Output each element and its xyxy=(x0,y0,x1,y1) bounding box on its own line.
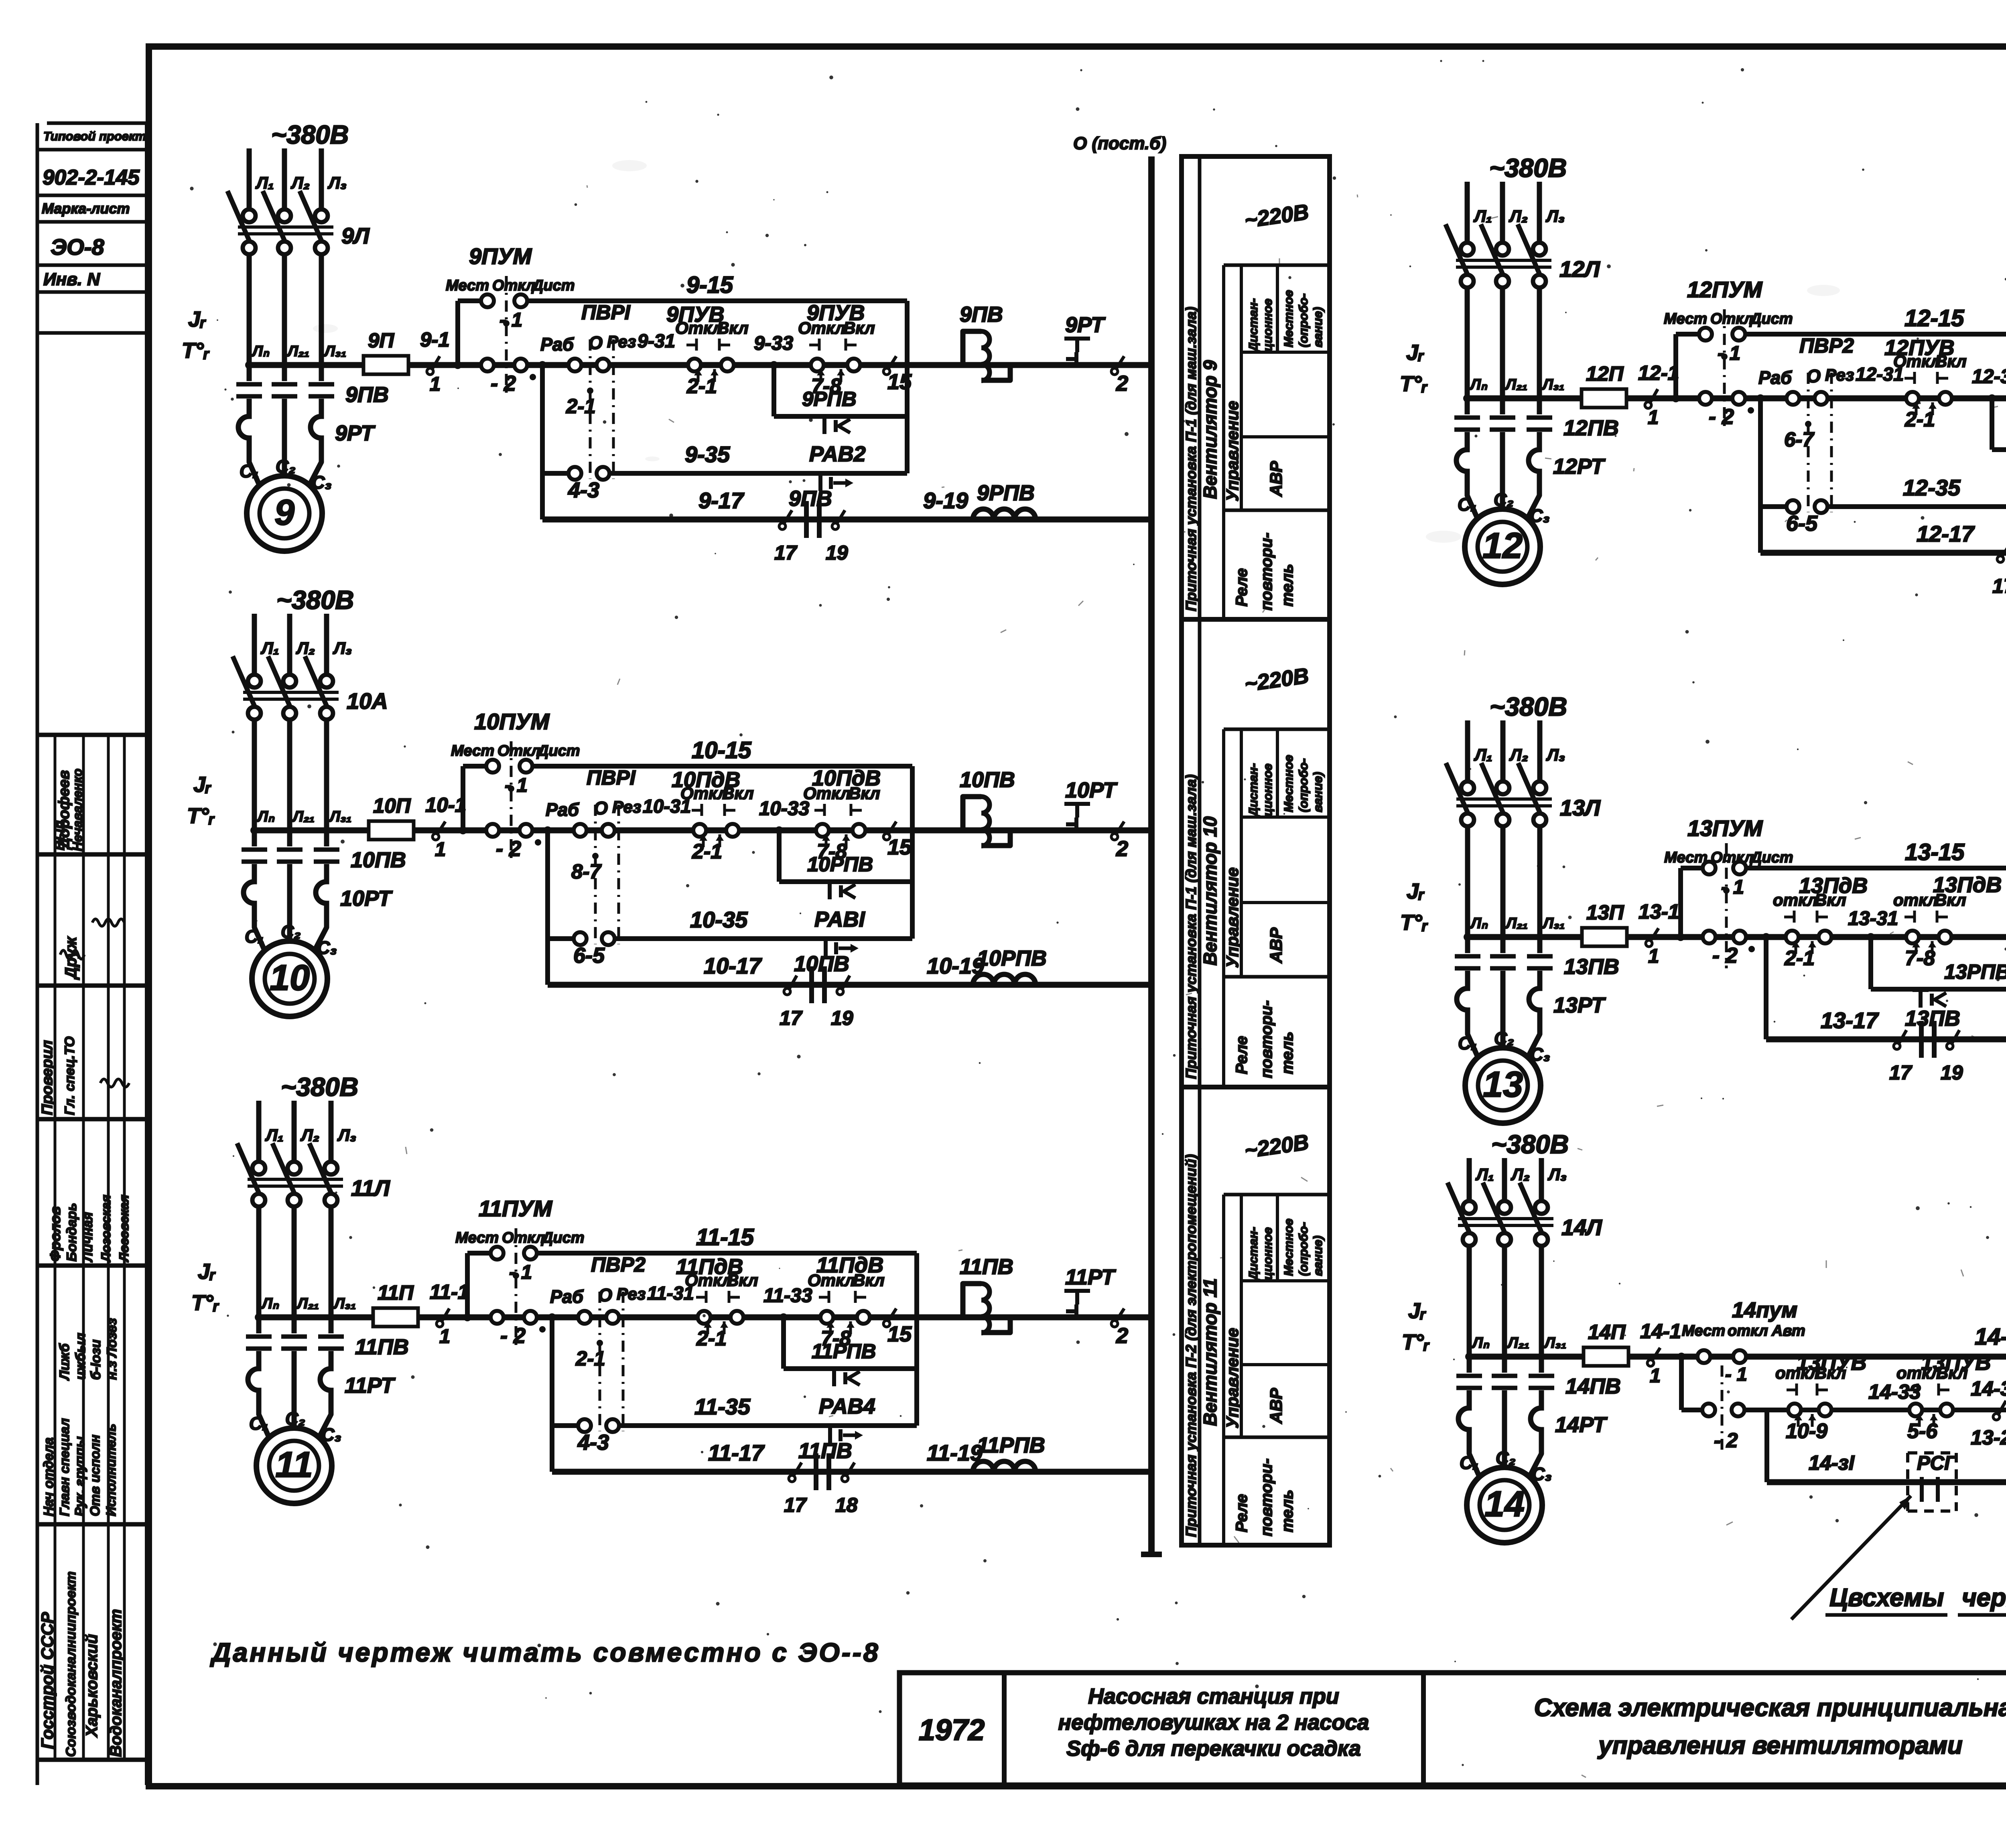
svg-text:Вентилятор 10: Вентилятор 10 xyxy=(1200,816,1220,966)
svg-text:Sф-6 для перекачки осадка: Sф-6 для перекачки осадка xyxy=(1066,1736,1361,1761)
svg-text:1972: 1972 xyxy=(919,1713,985,1747)
svg-text:повтори-: повтори- xyxy=(1258,1000,1275,1078)
svg-text:Л₃₁: Л₃₁ xyxy=(329,808,351,825)
svg-text:тель: тель xyxy=(1279,564,1296,607)
svg-text:Мест: Мест xyxy=(455,1229,499,1246)
svg-text:T°ᵣ: T°ᵣ xyxy=(191,1291,219,1315)
svg-text:12-15: 12-15 xyxy=(1904,305,1964,331)
svg-text:Лₙ: Лₙ xyxy=(1469,376,1488,393)
svg-text:Л₂₁: Л₂₁ xyxy=(296,1295,319,1312)
svg-text:10-33: 10-33 xyxy=(759,798,809,820)
svg-text:11РТ: 11РТ xyxy=(345,1373,396,1398)
svg-text:13-17: 13-17 xyxy=(1821,1008,1879,1033)
svg-text:Мест: Мест xyxy=(1682,1323,1725,1339)
svg-text:(опробо-: (опробо- xyxy=(1296,758,1310,812)
svg-text:- 2: - 2 xyxy=(1712,943,1738,968)
svg-text:Отв исполн: Отв исполн xyxy=(87,1435,102,1516)
svg-text:12-35: 12-35 xyxy=(1903,475,1961,500)
svg-text:1: 1 xyxy=(1648,407,1659,428)
svg-text:ПВРІ: ПВРІ xyxy=(587,766,636,789)
svg-text:Л₃₁: Л₃₁ xyxy=(323,343,346,360)
svg-text:13ПУВ: 13ПУВ xyxy=(1797,1351,1866,1375)
svg-text:Мест: Мест xyxy=(1664,849,1708,866)
svg-text:Раб: Раб xyxy=(540,334,574,355)
svg-text:Л₃₁: Л₃₁ xyxy=(1541,376,1564,393)
svg-text:~380В: ~380В xyxy=(276,585,354,615)
svg-text:Приточная установка П-1 (для м: Приточная установка П-1 (для маш.зала) xyxy=(1183,307,1199,611)
svg-text:Л₃: Л₃ xyxy=(1545,207,1565,225)
svg-text:6-5: 6-5 xyxy=(573,943,605,968)
svg-text:Дист: Дист xyxy=(1749,310,1793,327)
svg-text:13ПВ: 13ПВ xyxy=(1905,1006,1960,1030)
svg-text:ционное: ционное xyxy=(1261,1227,1275,1280)
svg-text:2-1: 2-1 xyxy=(696,1327,727,1350)
svg-text:Дистан-: Дистан- xyxy=(1246,298,1260,353)
svg-text:вание): вание) xyxy=(1311,772,1325,812)
svg-text:откл: откл xyxy=(1893,891,1938,909)
svg-text:Реле: Реле xyxy=(1233,568,1251,607)
svg-text:11ПВ: 11ПВ xyxy=(355,1335,409,1359)
svg-text:9-15: 9-15 xyxy=(686,272,733,298)
svg-text:Исполнитель: Исполнитель xyxy=(104,1424,118,1516)
svg-text:Л₁: Л₁ xyxy=(255,173,274,192)
svg-text:13Л: 13Л xyxy=(1560,795,1601,820)
svg-text:19: 19 xyxy=(826,542,848,564)
svg-text:Управление: Управление xyxy=(1223,401,1242,501)
svg-text:Дист: Дист xyxy=(531,277,575,294)
svg-text:12-33: 12-33 xyxy=(1972,366,2006,387)
svg-text:11: 11 xyxy=(275,1445,313,1485)
svg-text:2: 2 xyxy=(1116,371,1128,396)
svg-text:C₁: C₁ xyxy=(240,461,259,481)
svg-text:C₁: C₁ xyxy=(245,926,264,947)
svg-text:РСГ: РСГ xyxy=(1917,1452,1957,1474)
svg-text:Откл: Откл xyxy=(1711,849,1754,866)
svg-text:- 2: - 2 xyxy=(496,837,521,861)
svg-text:10РТ: 10РТ xyxy=(340,886,393,911)
svg-text:C₁: C₁ xyxy=(1458,1033,1477,1053)
svg-text:ижбыл: ижбыл xyxy=(73,1333,88,1380)
svg-text:(опробо-: (опробо- xyxy=(1296,293,1310,347)
svg-text:Откл: Откл xyxy=(497,742,540,759)
svg-text:Л₃: Л₃ xyxy=(333,639,352,657)
svg-text:ционное: ционное xyxy=(1261,763,1275,816)
svg-text:9ПУВ: 9ПУВ xyxy=(666,302,724,327)
svg-text:19: 19 xyxy=(1941,1061,1963,1084)
svg-text:Рез: Рез xyxy=(612,797,641,816)
svg-text:11ПУМ: 11ПУМ xyxy=(479,1196,552,1221)
svg-text:Jᵣ: Jᵣ xyxy=(198,1260,216,1284)
svg-text:Дистан-: Дистан- xyxy=(1246,763,1260,818)
svg-text:11-35: 11-35 xyxy=(694,1394,751,1419)
svg-text:Водоканалпроект: Водоканалпроект xyxy=(107,1609,125,1757)
svg-text:11-17: 11-17 xyxy=(708,1440,765,1465)
svg-text:н.з Лозез: н.з Лозез xyxy=(104,1318,120,1380)
svg-text:- 1: - 1 xyxy=(509,1262,532,1283)
svg-text:14пум: 14пум xyxy=(1732,1298,1797,1322)
svg-text:Л₁: Л₁ xyxy=(1473,207,1492,225)
svg-text:2-1: 2-1 xyxy=(1784,947,1815,970)
svg-text:Нач отдела: Нач отдела xyxy=(41,1438,56,1516)
svg-text:9ПВ: 9ПВ xyxy=(789,487,832,511)
svg-text:Дист: Дист xyxy=(541,1229,585,1246)
svg-text:10-35: 10-35 xyxy=(690,907,748,932)
svg-text:Инв. N: Инв. N xyxy=(43,270,100,289)
svg-text:Лₙ: Лₙ xyxy=(1471,1335,1490,1351)
svg-text:Друж: Друж xyxy=(62,936,80,980)
svg-text:~380В: ~380В xyxy=(281,1072,358,1101)
svg-text:Л₂₁: Л₂₁ xyxy=(1507,1335,1529,1351)
svg-text:902-2-145: 902-2-145 xyxy=(43,166,140,189)
svg-text:9-19: 9-19 xyxy=(923,488,968,513)
svg-text:Дистан-: Дистан- xyxy=(1246,1227,1260,1281)
svg-text:Jᵣ: Jᵣ xyxy=(1406,341,1424,365)
svg-text:(опробо-: (опробо- xyxy=(1296,1222,1310,1276)
svg-text:11ПдВ: 11ПдВ xyxy=(676,1255,743,1279)
svg-text:12ПУМ: 12ПУМ xyxy=(1687,277,1762,302)
svg-text:- 1: - 1 xyxy=(1718,343,1740,364)
svg-text:11ПВ: 11ПВ xyxy=(798,1439,852,1463)
svg-text:17: 17 xyxy=(774,542,798,564)
svg-text:Л₂: Л₂ xyxy=(1511,1165,1530,1184)
svg-text:повтори-: повтори- xyxy=(1258,533,1275,611)
svg-text:1: 1 xyxy=(435,839,446,860)
svg-text:тель: тель xyxy=(1279,1032,1296,1074)
svg-text:11РПВ: 11РПВ xyxy=(812,1340,876,1363)
svg-text:11РТ: 11РТ xyxy=(1065,1265,1116,1289)
svg-text:Реле: Реле xyxy=(1233,1494,1251,1533)
svg-text:14-33: 14-33 xyxy=(1868,1380,1921,1403)
svg-text:Личная: Личная xyxy=(80,1212,95,1263)
svg-text:- 2: - 2 xyxy=(1714,1429,1738,1452)
svg-text:11-15: 11-15 xyxy=(696,1224,754,1250)
svg-text:Приточная установка П-1 (для м: Приточная установка П-1 (для маш.зала) xyxy=(1183,775,1199,1079)
svg-text:13ПУВ: 13ПУВ xyxy=(1921,1351,1991,1375)
svg-text:Нечаваленко: Нечаваленко xyxy=(70,769,85,851)
svg-text:Л₃: Л₃ xyxy=(1547,1165,1567,1184)
svg-text:- 2: - 2 xyxy=(500,1324,526,1348)
svg-text:откл: откл xyxy=(1728,1323,1768,1339)
svg-text:Л₁: Л₁ xyxy=(1474,745,1492,764)
svg-text:10-1: 10-1 xyxy=(425,793,466,816)
svg-text:14РТ: 14РТ xyxy=(1555,1413,1608,1437)
svg-text:9-17: 9-17 xyxy=(698,488,745,513)
svg-text:АВР: АВР xyxy=(1267,460,1285,497)
svg-text:Гл. спец.ТО: Гл. спец.ТО xyxy=(62,1037,77,1115)
svg-text:10П: 10П xyxy=(373,794,411,817)
svg-text:Лₙ: Лₙ xyxy=(251,343,270,360)
svg-text:Авт: Авт xyxy=(1771,1323,1805,1339)
svg-text:2-1: 2-1 xyxy=(575,1347,605,1370)
svg-text:Харьковский: Харьковский xyxy=(83,1634,101,1738)
svg-text:Л₁: Л₁ xyxy=(265,1126,284,1144)
svg-text:Союзводоканалниипроект: Союзводоканалниипроект xyxy=(63,1571,79,1757)
svg-text:Схема электрическая принципиал: Схема электрическая принципиальная xyxy=(1534,1694,2006,1722)
svg-text:9РТ: 9РТ xyxy=(335,421,376,445)
svg-text:Л₂: Л₂ xyxy=(296,639,315,657)
svg-text:11ПВ: 11ПВ xyxy=(960,1255,1013,1279)
svg-text:Л₃: Л₃ xyxy=(337,1126,356,1144)
svg-text:4-3: 4-3 xyxy=(577,1430,609,1454)
svg-text:Откл: Откл xyxy=(502,1229,545,1246)
svg-text:12-17: 12-17 xyxy=(1917,521,1975,546)
svg-text:17: 17 xyxy=(780,1007,803,1029)
svg-text:Jᵣ: Jᵣ xyxy=(193,773,211,797)
svg-text:19: 19 xyxy=(831,1007,853,1029)
svg-text:1: 1 xyxy=(439,1326,450,1347)
svg-text:14-35: 14-35 xyxy=(1971,1377,2006,1400)
svg-text:9Л: 9Л xyxy=(341,223,370,248)
svg-text:1: 1 xyxy=(1648,945,1659,967)
svg-text:Типовой проект: Типовой проект xyxy=(43,129,146,143)
svg-text:9: 9 xyxy=(274,493,294,533)
svg-text:Л₁: Л₁ xyxy=(260,639,279,657)
svg-text:13-25 13-2З: 13-25 13-2З xyxy=(1971,1426,2006,1449)
svg-text:~380В: ~380В xyxy=(1489,153,1567,183)
svg-text:13ПдВ: 13ПдВ xyxy=(1933,873,2002,897)
svg-text:12РТ: 12РТ xyxy=(1553,454,1606,479)
svg-text:10ПВ: 10ПВ xyxy=(351,848,406,872)
svg-text:Л₂: Л₂ xyxy=(1509,207,1528,225)
svg-text:11-19: 11-19 xyxy=(927,1440,983,1465)
svg-text:Л₃₁: Л₃₁ xyxy=(1543,1335,1566,1351)
svg-text:Лижб: Лижб xyxy=(57,1343,72,1381)
svg-text:11-1: 11-1 xyxy=(430,1280,469,1303)
svg-text:Вып: Вып xyxy=(52,820,67,850)
svg-text:9П: 9П xyxy=(368,329,394,352)
svg-text:10-9: 10-9 xyxy=(1786,1420,1827,1443)
svg-text:Раб: Раб xyxy=(1758,367,1792,388)
svg-text:12ПВ: 12ПВ xyxy=(1563,416,1619,440)
svg-text:17: 17 xyxy=(1992,575,2006,597)
svg-text:12: 12 xyxy=(1482,526,1523,566)
svg-text:Цвсхемы: Цвсхемы xyxy=(1829,1584,1944,1612)
svg-text:О (пост.б): О (пост.б) xyxy=(1073,134,1166,153)
svg-text:Марка-лист: Марка-лист xyxy=(42,200,130,217)
svg-text:10ПдВ: 10ПдВ xyxy=(812,766,881,790)
svg-text:Реле: Реле xyxy=(1233,1036,1251,1075)
svg-text:- 1: - 1 xyxy=(499,309,522,331)
svg-text:2-1: 2-1 xyxy=(692,840,722,863)
svg-text:14П: 14П xyxy=(1588,1321,1626,1343)
svg-text:Лозовская: Лозовская xyxy=(99,1195,113,1262)
svg-text:12ПУВ: 12ПУВ xyxy=(1884,336,1954,360)
svg-text:Л₃: Л₃ xyxy=(327,173,347,192)
svg-text:вание): вание) xyxy=(1311,307,1325,347)
svg-text:Данный чертеж читать совмес: Данный чертеж читать совместно с ЭО--8 xyxy=(210,1637,880,1667)
svg-text:АВР: АВР xyxy=(1267,927,1285,964)
svg-text:Jᵣ: Jᵣ xyxy=(188,307,206,331)
svg-text:17: 17 xyxy=(1889,1061,1913,1084)
svg-text:Jᵣ: Jᵣ xyxy=(1407,879,1425,903)
svg-text:Местное: Местное xyxy=(1281,290,1295,347)
svg-text:1: 1 xyxy=(1650,1365,1661,1387)
svg-text:7-8: 7-8 xyxy=(1905,947,1935,970)
svg-text:12Л: 12Л xyxy=(1559,256,1600,282)
svg-text:Л₂: Л₂ xyxy=(300,1126,319,1144)
svg-text:6-5: 6-5 xyxy=(1786,511,1818,536)
svg-text:5-6: 5-6 xyxy=(1907,1420,1938,1443)
svg-text:13: 13 xyxy=(1483,1065,1523,1105)
svg-text:РАВ4: РАВ4 xyxy=(819,1394,875,1418)
svg-text:Л₂₁: Л₂₁ xyxy=(292,808,315,825)
svg-text:6-7: 6-7 xyxy=(1784,428,1815,451)
svg-text:9РПВ: 9РПВ xyxy=(802,387,857,410)
svg-text:нефтеловушках на 2 насоса: нефтеловушках на 2 насоса xyxy=(1058,1710,1369,1734)
svg-text:ПВР2: ПВР2 xyxy=(591,1253,646,1276)
svg-text:Приточная установка П-2 (для э: Приточная установка П-2 (для электропоме… xyxy=(1183,1154,1199,1537)
svg-text:10ПВ: 10ПВ xyxy=(794,952,849,976)
svg-text:14: 14 xyxy=(1484,1484,1525,1524)
svg-text:10РПВ: 10РПВ xyxy=(807,853,873,876)
svg-text:12П: 12П xyxy=(1586,362,1624,385)
svg-text:10РПВ: 10РПВ xyxy=(977,946,1047,970)
svg-text:17: 17 xyxy=(784,1494,807,1516)
svg-text:~380В: ~380В xyxy=(1490,692,1567,721)
svg-text:Вентилятор 9: Вентилятор 9 xyxy=(1200,360,1220,499)
svg-text:10-15: 10-15 xyxy=(692,737,751,763)
svg-text:~380В: ~380В xyxy=(1491,1130,1569,1159)
svg-text:10ПУМ: 10ПУМ xyxy=(474,709,550,734)
svg-text:б-Іози: б-Іози xyxy=(88,1339,104,1380)
svg-text:черт. 37-І-2: черт. 37-І-2 xyxy=(1962,1584,2006,1612)
svg-text:Местное: Местное xyxy=(1281,755,1295,812)
svg-text:10РТ: 10РТ xyxy=(1065,778,1118,802)
svg-text:T°ᵣ: T°ᵣ xyxy=(1400,911,1428,935)
svg-text:Л₃₁: Л₃₁ xyxy=(1542,915,1565,932)
svg-text:9РТ: 9РТ xyxy=(1065,313,1106,337)
svg-text:13ПВ: 13ПВ xyxy=(1564,955,1619,979)
svg-text:10-17: 10-17 xyxy=(704,953,762,978)
svg-text:Госстрой СССР: Госстрой СССР xyxy=(38,1612,57,1749)
svg-text:T°ᵣ: T°ᵣ xyxy=(1402,1330,1430,1354)
svg-text:11-33: 11-33 xyxy=(763,1285,812,1306)
svg-text:2: 2 xyxy=(1116,1324,1128,1348)
svg-text:Рез: Рез xyxy=(1825,365,1854,384)
svg-text:18: 18 xyxy=(835,1494,858,1516)
svg-text:Раб: Раб xyxy=(546,799,579,820)
svg-text:15: 15 xyxy=(887,835,912,859)
svg-text:2-1: 2-1 xyxy=(686,375,717,398)
svg-text:тель: тель xyxy=(1279,1490,1296,1532)
svg-text:8-7: 8-7 xyxy=(571,860,602,883)
svg-text:9РПВ: 9РПВ xyxy=(977,481,1035,505)
svg-text:11РПВ: 11РПВ xyxy=(977,1433,1045,1457)
svg-text:ПВР2: ПВР2 xyxy=(1799,334,1854,357)
svg-text:13П: 13П xyxy=(1586,901,1624,924)
svg-text:1: 1 xyxy=(430,373,441,395)
svg-text:15: 15 xyxy=(887,1322,912,1346)
svg-text:- 2: - 2 xyxy=(1709,405,1734,429)
svg-text:2-1: 2-1 xyxy=(1904,408,1935,431)
svg-text:Раб: Раб xyxy=(550,1286,584,1307)
svg-text:13-31: 13-31 xyxy=(1848,908,1898,929)
svg-text:9ПУМ: 9ПУМ xyxy=(469,243,532,269)
svg-text:вание): вание) xyxy=(1311,1235,1325,1276)
svg-text:10А: 10А xyxy=(347,688,388,714)
svg-text:- 2: - 2 xyxy=(491,371,516,396)
svg-text:13-1: 13-1 xyxy=(1639,900,1679,923)
svg-text:Откл: Откл xyxy=(492,277,535,294)
svg-text:9ПВ: 9ПВ xyxy=(960,302,1003,327)
svg-text:Л₁: Л₁ xyxy=(1475,1165,1494,1184)
svg-text:Фролов: Фролов xyxy=(47,1206,63,1262)
svg-text:11ПдВ: 11ПдВ xyxy=(816,1253,883,1277)
svg-text:C₁: C₁ xyxy=(1458,494,1477,515)
svg-text:Мест: Мест xyxy=(451,742,494,759)
svg-text:Рук. группы: Рук. группы xyxy=(72,1436,87,1516)
svg-text:Бондарь: Бондарь xyxy=(64,1203,79,1262)
svg-text:РАВ2: РАВ2 xyxy=(809,442,866,466)
svg-text:ЭО-8: ЭО-8 xyxy=(51,234,104,260)
svg-text:13ПдВ: 13ПдВ xyxy=(1799,874,1868,898)
svg-text:14-1: 14-1 xyxy=(1640,1320,1681,1343)
svg-text:Дист: Дист xyxy=(536,742,580,759)
svg-text:14-13: 14-13 xyxy=(1975,1324,2006,1350)
svg-text:Рез: Рез xyxy=(617,1284,646,1303)
svg-text:Л₂₁: Л₂₁ xyxy=(286,343,309,360)
svg-text:15: 15 xyxy=(887,370,912,394)
svg-text:Мест: Мест xyxy=(1664,310,1707,327)
svg-text:Управление: Управление xyxy=(1223,867,1242,968)
svg-text:14ПВ: 14ПВ xyxy=(1565,1374,1621,1398)
svg-text:Главн специал: Главн специал xyxy=(57,1418,72,1516)
svg-text:2-1: 2-1 xyxy=(566,395,596,418)
svg-text:Jᵣ: Jᵣ xyxy=(1408,1299,1426,1323)
svg-text:C₁: C₁ xyxy=(249,1413,268,1434)
svg-text:13-15: 13-15 xyxy=(1905,839,1965,865)
svg-text:4-3: 4-3 xyxy=(568,478,599,502)
svg-text:T°ᵣ: T°ᵣ xyxy=(182,339,210,363)
svg-text:Вентилятор 11: Вентилятор 11 xyxy=(1200,1278,1220,1426)
svg-text:Откл: Откл xyxy=(1710,310,1753,327)
svg-text:Лₙ: Лₙ xyxy=(261,1295,279,1312)
svg-text:Л₂: Л₂ xyxy=(1509,745,1528,764)
svg-text:13ПУМ: 13ПУМ xyxy=(1687,815,1763,841)
svg-text:Лₙ: Лₙ xyxy=(256,808,275,825)
svg-text:Л₂₁: Л₂₁ xyxy=(1504,376,1527,393)
svg-text:11П: 11П xyxy=(378,1281,414,1304)
svg-text:Насосная станция при: Насосная станция при xyxy=(1088,1684,1339,1708)
svg-text:10ПдВ: 10ПдВ xyxy=(672,768,740,792)
svg-text:2: 2 xyxy=(1116,837,1128,861)
svg-text:Л₂: Л₂ xyxy=(290,173,310,192)
svg-text:C₁: C₁ xyxy=(1460,1452,1479,1473)
svg-text:12-1: 12-1 xyxy=(1638,361,1679,384)
svg-text:ционное: ционное xyxy=(1261,298,1275,351)
svg-text:Управление: Управление xyxy=(1223,1328,1242,1428)
svg-text:Л₂₁: Л₂₁ xyxy=(1505,915,1528,932)
svg-text:T°ᵣ: T°ᵣ xyxy=(187,804,215,828)
svg-text:9-1: 9-1 xyxy=(420,328,450,351)
svg-text:T°ᵣ: T°ᵣ xyxy=(1400,372,1428,396)
svg-text:Лозовская: Лозовская xyxy=(117,1195,131,1262)
svg-text:Дист: Дист xyxy=(1750,849,1793,866)
svg-text:Мест: Мест xyxy=(446,277,489,294)
svg-text:Местное: Местное xyxy=(1281,1219,1295,1276)
svg-text:РАВІ: РАВІ xyxy=(814,907,865,931)
svg-text:- 1: - 1 xyxy=(505,775,528,796)
svg-text:Л₃: Л₃ xyxy=(1546,745,1565,764)
svg-text:9ПУВ: 9ПУВ xyxy=(807,301,865,325)
svg-text:Лₙ: Лₙ xyxy=(1470,915,1488,932)
svg-text:9ПВ: 9ПВ xyxy=(345,383,389,407)
svg-text:~380В: ~380В xyxy=(271,120,349,149)
svg-text:9-35: 9-35 xyxy=(685,442,730,467)
svg-text:9-33: 9-33 xyxy=(754,333,793,354)
svg-text:ПВРІ: ПВРІ xyxy=(581,301,631,324)
svg-text:- 1: - 1 xyxy=(1725,1363,1747,1385)
